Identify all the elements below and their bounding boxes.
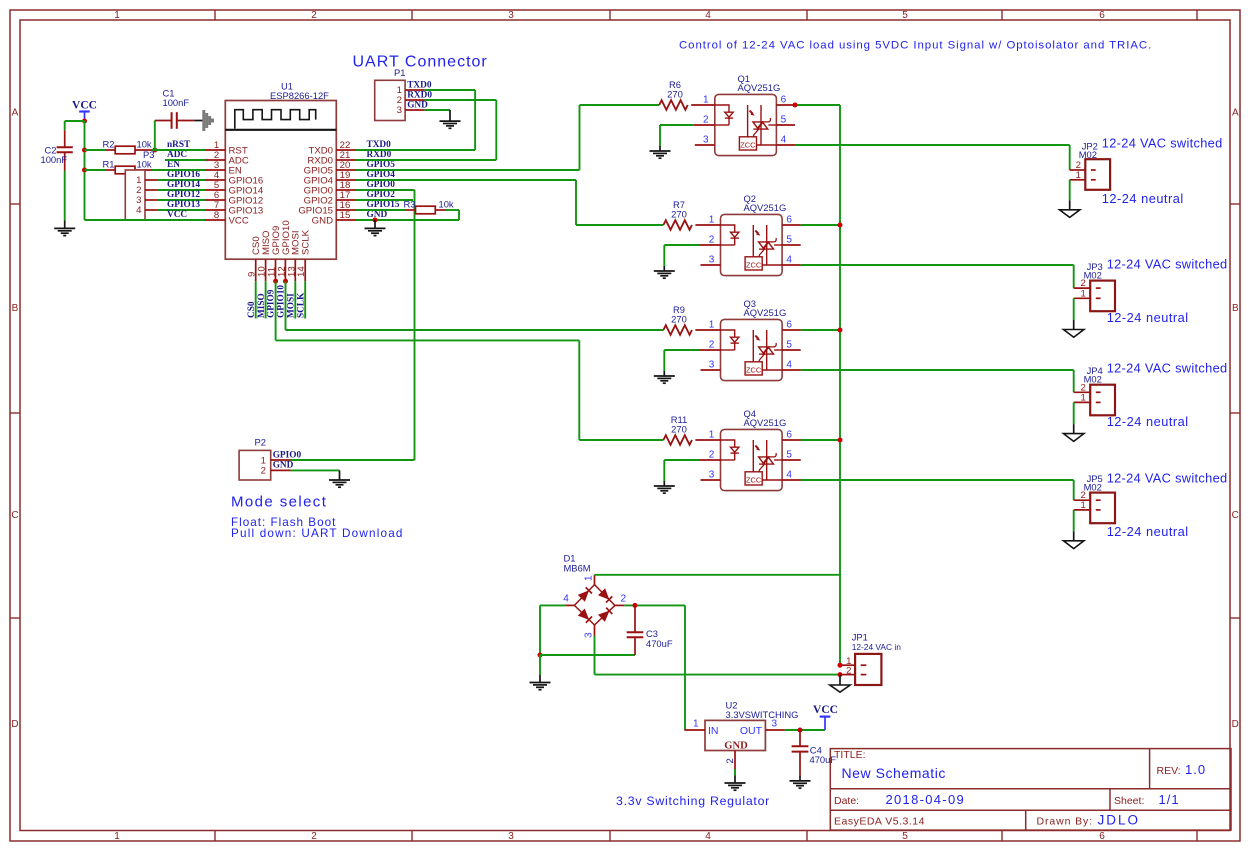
- svg-text:GPIO0: GPIO0: [273, 450, 302, 460]
- svg-text:4: 4: [781, 134, 787, 145]
- junction dot GND row: [373, 218, 378, 223]
- svg-text:4: 4: [786, 469, 792, 480]
- U1 antenna base line: [225, 129, 336, 131]
- regulator U2 3.3VSWITCHING body: [705, 720, 765, 750]
- svg-text:New Schematic: New Schematic: [842, 765, 946, 781]
- svg-text:4: 4: [705, 10, 711, 21]
- wire Q2 pin6 to bus: [801, 224, 840, 226]
- svg-text:EasyEDA V5.3.14: EasyEDA V5.3.14: [834, 816, 925, 828]
- frame column ticks bottom: [214, 831, 216, 842]
- wire D1 pin1 to AC bus: [595, 574, 841, 576]
- svg-text:C: C: [1232, 510, 1239, 521]
- svg-text:1/1: 1/1: [1159, 792, 1180, 807]
- wire P1 RXD0: [425, 99, 497, 101]
- wire GPIO15 to R3: [356, 209, 405, 211]
- Q1 pin 3 stub (open): [695, 144, 715, 146]
- connector P3 (4-pin header): [125, 170, 145, 220]
- svg-text:8: 8: [214, 210, 219, 221]
- svg-text:6: 6: [781, 94, 787, 105]
- U1 bottom pin stubs and names: [255, 259, 257, 281]
- resistor R7 270: [663, 220, 692, 230]
- svg-text:1: 1: [703, 94, 709, 105]
- svg-text:6: 6: [786, 319, 792, 330]
- Q4 photon arrow: [755, 446, 758, 449]
- Q2 pin 4 stub: [782, 264, 801, 266]
- svg-text:5: 5: [902, 831, 908, 842]
- svg-text:Mode select: Mode select: [231, 494, 327, 511]
- svg-text:14: 14: [296, 266, 307, 277]
- U1 right pin stubs and names: [336, 149, 356, 151]
- wire U2 pin2 to ground: [734, 769, 736, 776]
- junction dot Q4 pin6 bus: [838, 438, 843, 443]
- svg-text:CS0: CS0: [247, 301, 257, 318]
- svg-text:D: D: [11, 719, 18, 730]
- Q3 pin 6 stub: [782, 329, 801, 331]
- svg-text:JDLO: JDLO: [1098, 813, 1141, 828]
- ground below U1 GND pin: [374, 220, 376, 228]
- svg-text:4: 4: [563, 594, 569, 605]
- wire Q4 pin6 to bus: [801, 439, 840, 441]
- ground below P2: [329, 479, 350, 481]
- svg-text:270: 270: [671, 314, 687, 325]
- frame row ticks left: [10, 203, 20, 205]
- wire P1 GND to ground: [425, 109, 450, 111]
- ground below Q1: [650, 150, 671, 152]
- svg-text:2: 2: [261, 466, 266, 477]
- svg-text:Drawn By:: Drawn By:: [1037, 816, 1094, 828]
- svg-text:470uF: 470uF: [646, 638, 673, 649]
- Q2 pin 5 stub (open): [782, 244, 801, 246]
- svg-text:1: 1: [114, 10, 120, 21]
- wire GPIO4 to R7: [356, 179, 576, 181]
- wire RXD0 row: [356, 159, 496, 161]
- svg-text:4: 4: [136, 205, 142, 216]
- svg-text:10k: 10k: [137, 138, 152, 149]
- wire JP2 pin1 to ground: [1069, 180, 1071, 201]
- Q2 pin 3 stub (open): [701, 264, 721, 266]
- wire U2 OUT to VCC: [785, 729, 825, 731]
- connector JP5 M02 body: [1090, 493, 1115, 524]
- wire Q1 pin 2 to ground: [660, 124, 694, 126]
- wire Q4 pin4 to JP5: [801, 479, 1074, 481]
- connector JP4 M02 body: [1090, 385, 1115, 416]
- svg-text:12-24 neutral: 12-24 neutral: [1102, 191, 1184, 206]
- svg-text:M02: M02: [1084, 269, 1102, 280]
- svg-text:R3: R3: [404, 198, 416, 209]
- svg-text:ZCC: ZCC: [746, 365, 762, 374]
- wire GPIO9 to R11: [275, 281, 277, 340]
- svg-text:5: 5: [786, 234, 792, 245]
- wire GPIO2 (open): [356, 199, 413, 201]
- svg-text:5: 5: [786, 449, 792, 460]
- svg-text:4: 4: [786, 254, 792, 265]
- svg-text:270: 270: [671, 424, 687, 435]
- junction dot JP1 pin2: [838, 672, 843, 677]
- wire GPIO5 to R6: [356, 169, 580, 171]
- svg-text:P1: P1: [394, 67, 405, 78]
- Q3 ZCC block: [745, 362, 762, 375]
- power flag VCC (upper left): [79, 110, 90, 112]
- svg-text:VCC: VCC: [229, 215, 249, 226]
- svg-text:GPIO12: GPIO12: [167, 190, 200, 200]
- resistor R6 270: [659, 100, 688, 110]
- Q1 pin 4 stub: [776, 144, 795, 146]
- Q3 pin 3 stub (open): [701, 369, 721, 371]
- svg-text:GPIO13: GPIO13: [167, 200, 200, 210]
- svg-text:AQV251G: AQV251G: [744, 417, 787, 428]
- connector JP3 M02 body: [1090, 281, 1115, 312]
- Q1 internal triac: [747, 105, 749, 137]
- optoisolator Q3 AQV251G body: [721, 319, 783, 380]
- Q4 pin 5 stub (open): [782, 459, 801, 461]
- resistor R11 270: [663, 435, 692, 445]
- wire P2 pin2 to ground: [291, 469, 340, 471]
- svg-text:AQV251G: AQV251G: [744, 202, 787, 213]
- svg-text:2: 2: [311, 831, 317, 842]
- svg-text:Pull down: UART Download: Pull down: UART Download: [231, 527, 404, 540]
- svg-text:D: D: [1232, 719, 1239, 730]
- svg-text:EN: EN: [167, 160, 180, 170]
- ground below C4: [790, 780, 811, 782]
- D1 diode left-top: [579, 591, 589, 601]
- svg-text:GPIO2: GPIO2: [367, 190, 396, 200]
- svg-text:B: B: [12, 303, 19, 314]
- wire Q1 pin4 to JP2: [795, 144, 1070, 146]
- svg-text:ESP8266-12F: ESP8266-12F: [270, 90, 329, 101]
- svg-text:GND: GND: [724, 741, 748, 752]
- svg-text:4: 4: [786, 359, 792, 370]
- Q1 internal LED: [715, 105, 729, 112]
- svg-text:3: 3: [583, 632, 594, 638]
- svg-text:GND: GND: [273, 461, 294, 471]
- svg-text:100nF: 100nF: [163, 97, 190, 108]
- svg-text:M02: M02: [1084, 481, 1102, 492]
- U1 left pin stubs and names: [205, 149, 225, 151]
- svg-text:VCC: VCC: [813, 704, 838, 716]
- svg-text:12-24 neutral: 12-24 neutral: [1107, 414, 1189, 429]
- svg-text:GPIO5: GPIO5: [367, 160, 396, 170]
- svg-text:R2: R2: [103, 138, 115, 149]
- junction dot C3 tap: [633, 603, 638, 608]
- wire Q2 pin 2 to ground: [664, 244, 699, 246]
- svg-text:2018-04-09: 2018-04-09: [886, 792, 966, 807]
- wire R3 to GND row: [446, 209, 459, 211]
- Q1 ZCC block: [739, 137, 756, 150]
- Q1 pin 5 stub (open): [776, 124, 795, 126]
- wire ground rail to C3 bottom: [540, 654, 635, 656]
- svg-text:TXD0: TXD0: [367, 140, 392, 150]
- power flag VCC at U2 output: [820, 715, 831, 717]
- chassis ground below JP1: [830, 685, 850, 692]
- ground below Q2: [654, 270, 675, 272]
- Q4 internal LED: [721, 440, 735, 447]
- svg-text:R1: R1: [103, 158, 115, 169]
- wire VCC to C2 top: [65, 120, 85, 122]
- svg-text:12-24 VAC switched: 12-24 VAC switched: [1107, 471, 1228, 486]
- svg-text:3: 3: [508, 10, 514, 21]
- svg-text:GND: GND: [312, 215, 333, 226]
- svg-text:P2: P2: [255, 436, 266, 447]
- svg-text:GPIO14: GPIO14: [167, 180, 200, 190]
- svg-text:2: 2: [709, 449, 715, 460]
- D1 pin 4 lead: [566, 604, 574, 606]
- wire Q4 pin 2 to ground: [664, 459, 699, 461]
- wire D1 pin2 to U2: [624, 604, 685, 606]
- Q2 pin 6 stub: [782, 224, 801, 226]
- svg-text:2: 2: [311, 10, 317, 21]
- ground below Q4: [654, 485, 675, 487]
- junction dot Q1 pin6: [793, 103, 798, 108]
- Q3 photon arrow: [755, 336, 758, 339]
- frame row ticks right: [1230, 203, 1240, 205]
- svg-text:REV:: REV:: [1157, 765, 1181, 777]
- svg-text:ZCC: ZCC: [746, 260, 762, 269]
- ground below Q3: [654, 375, 675, 377]
- ground below C2: [64, 221, 66, 229]
- Q1 pin 6 stub: [776, 104, 795, 106]
- resistor R1 10k: [85, 169, 106, 171]
- U2 pin 2 stub: [734, 751, 736, 770]
- svg-text:1.0: 1.0: [1185, 762, 1206, 777]
- wire to D1 ground: [539, 655, 541, 675]
- svg-text:IN: IN: [708, 725, 719, 737]
- svg-text:12-24 VAC switched: 12-24 VAC switched: [1107, 256, 1228, 271]
- svg-text:UART Connector: UART Connector: [353, 54, 488, 71]
- connector P2 (2-pin header): [239, 450, 271, 480]
- wire VCC row to pin 8: [85, 219, 206, 221]
- wire D1 pin3 to JP1 pin2: [594, 636, 596, 675]
- Q2 pin 1 stub: [695, 224, 720, 226]
- svg-text:1: 1: [709, 429, 715, 440]
- resistor R9 270: [663, 325, 692, 335]
- D1 pin 1 lead: [594, 575, 596, 585]
- svg-text:B: B: [1232, 303, 1239, 314]
- wire Q3 pin6 to bus: [801, 329, 840, 331]
- svg-text:GPIO16: GPIO16: [167, 170, 200, 180]
- connector P1 (3-pin header): [375, 80, 405, 120]
- U1 antenna zigzag: [235, 110, 316, 129]
- svg-text:OUT: OUT: [740, 725, 763, 737]
- Q4 pin 2 stub: [700, 459, 721, 461]
- D1 pin 2 lead: [615, 604, 624, 606]
- svg-text:A: A: [1232, 108, 1239, 119]
- capacitor C1 100nF: [154, 121, 156, 151]
- optoisolator Q1 AQV251G body: [715, 94, 777, 155]
- svg-text:3: 3: [397, 105, 402, 116]
- svg-text:12-24 neutral: 12-24 neutral: [1107, 310, 1189, 325]
- Q3 internal LED: [721, 330, 735, 337]
- chassis ground below JP4: [1064, 434, 1084, 442]
- svg-text:3: 3: [703, 134, 709, 145]
- svg-text:M02: M02: [1079, 149, 1097, 160]
- svg-text:12-24 VAC switched: 12-24 VAC switched: [1107, 360, 1228, 375]
- svg-text:1: 1: [709, 214, 715, 225]
- svg-text:2: 2: [709, 234, 715, 245]
- ground below D1: [530, 682, 551, 684]
- Q4 pin 1 stub: [695, 439, 720, 441]
- Q4 pin 6 stub: [782, 439, 801, 441]
- svg-text:A: A: [12, 108, 19, 119]
- ground below P1: [440, 120, 461, 122]
- Q4 pin 4 stub: [782, 479, 801, 481]
- svg-text:Control of 12-24 VAC load usin: Control of 12-24 VAC load using 5VDC Inp…: [679, 40, 1152, 52]
- svg-text:ADC: ADC: [167, 150, 187, 160]
- chassis ground below JP3: [1064, 330, 1084, 338]
- svg-text:MOSI: MOSI: [287, 293, 297, 318]
- wire C2 to ground: [64, 171, 66, 221]
- svg-text:3: 3: [709, 254, 715, 265]
- svg-text:3: 3: [508, 831, 514, 842]
- svg-text:6: 6: [1099, 831, 1105, 842]
- Q2 internal triac: [752, 225, 754, 257]
- wire JP3 pin1 to ground: [1073, 298, 1075, 320]
- svg-text:3: 3: [772, 719, 778, 730]
- wire GPIO10 to R9: [285, 281, 287, 330]
- svg-text:TITLE:: TITLE:: [834, 749, 866, 761]
- svg-text:2: 2: [709, 339, 715, 350]
- svg-text:470uF: 470uF: [810, 754, 837, 765]
- resistor R3 10k: [405, 209, 416, 211]
- svg-text:GPIO0: GPIO0: [367, 180, 396, 190]
- D1 diode left-bottom: [579, 609, 589, 619]
- title block outline: [830, 749, 1231, 831]
- capacitor C2 100nF: [64, 121, 66, 130]
- svg-text:GPIO15: GPIO15: [367, 200, 400, 210]
- svg-text:3.3v Switching Regulator: 3.3v Switching Regulator: [616, 794, 770, 808]
- svg-text:ZCC: ZCC: [740, 140, 756, 149]
- Q3 internal triac: [752, 330, 754, 362]
- D1 pin 3 lead: [594, 625, 596, 636]
- svg-text:100nF: 100nF: [41, 154, 68, 165]
- Q4 internal triac: [752, 440, 754, 472]
- Q4 pin 3 stub (open): [701, 479, 721, 481]
- resistor R2 10k: [85, 149, 106, 151]
- wire EN: [152, 169, 205, 171]
- wire JP1 to chassis ground: [839, 675, 841, 685]
- svg-text:6: 6: [786, 429, 792, 440]
- gray signal-ground flag at C1: [194, 120, 204, 122]
- frame column ticks top: [214, 10, 216, 20]
- svg-text:MB6M: MB6M: [564, 562, 591, 573]
- Q2 internal LED: [721, 225, 735, 232]
- optoisolator Q4 AQV251G body: [721, 429, 783, 490]
- svg-text:VCC: VCC: [167, 210, 187, 220]
- junction dot nRST node: [152, 148, 157, 153]
- svg-text:4: 4: [705, 831, 711, 842]
- Q3 pin 2 stub: [700, 349, 721, 351]
- junction dot GPIO9 pin: [273, 279, 278, 284]
- svg-text:Sheet:: Sheet:: [1114, 795, 1144, 807]
- svg-text:1: 1: [709, 319, 715, 330]
- wire JP4 pin1 to ground: [1073, 402, 1075, 424]
- wire nRST: [152, 149, 205, 151]
- connector JP2 M02 body: [1085, 159, 1110, 190]
- wire JP5 pin1 to ground: [1073, 510, 1075, 531]
- svg-text:MISO: MISO: [257, 293, 267, 318]
- wire Q2 pin4 to JP3: [801, 264, 1074, 266]
- svg-text:AQV251G: AQV251G: [744, 307, 787, 318]
- capacitor C4 470uF: [799, 730, 801, 746]
- svg-text:VCC: VCC: [72, 100, 97, 112]
- svg-text:C: C: [11, 510, 18, 521]
- Q1 pin 2 stub: [694, 124, 715, 126]
- junction dot R2 row: [82, 148, 87, 153]
- junction dot R1 row: [82, 168, 87, 173]
- wire VCC rail vertical: [84, 121, 86, 220]
- Q1 photon arrow: [750, 111, 753, 114]
- svg-text:nRST: nRST: [167, 140, 191, 150]
- svg-text:2: 2: [621, 594, 627, 605]
- wire GPIO0 down to P2: [356, 189, 415, 191]
- Q2 pin 2 stub: [700, 244, 721, 246]
- svg-text:270: 270: [671, 209, 687, 220]
- svg-text:ZCC: ZCC: [746, 475, 762, 484]
- D1 diode top-right: [599, 589, 609, 599]
- svg-text:GPIO4: GPIO4: [367, 170, 396, 180]
- svg-text:5: 5: [786, 339, 792, 350]
- svg-text:6: 6: [1099, 10, 1105, 21]
- title block row dividers: [830, 788, 1231, 790]
- U2 pin 3 stub: [765, 729, 784, 731]
- ground below U2: [725, 782, 746, 784]
- D1 diode bottom-right: [599, 612, 609, 622]
- optoisolator Q2 AQV251G body: [721, 214, 783, 275]
- chassis ground below JP5: [1064, 541, 1084, 549]
- IC U1 ESP8266-12F body: [225, 101, 336, 260]
- svg-text:5: 5: [902, 10, 908, 21]
- junction dot ground rail: [538, 653, 543, 658]
- svg-text:SCLK: SCLK: [296, 292, 306, 318]
- junction dot VCC node: [82, 119, 87, 124]
- svg-text:2: 2: [725, 758, 736, 763]
- svg-text:10k: 10k: [439, 198, 454, 209]
- Q1 pin 1 stub: [691, 104, 715, 106]
- svg-text:6: 6: [786, 214, 792, 225]
- svg-text:3: 3: [709, 359, 715, 370]
- U2 pin 1 stub: [684, 729, 705, 731]
- svg-text:3.3VSWITCHING: 3.3VSWITCHING: [726, 709, 799, 720]
- wire Q3 pin4 to JP4: [801, 369, 1074, 371]
- junction dot GPIO10 pin: [283, 279, 288, 284]
- svg-text:2: 2: [703, 114, 709, 125]
- Q3 pin 4 stub: [782, 369, 801, 371]
- svg-text:AQV251G: AQV251G: [738, 82, 781, 93]
- svg-text:15: 15: [340, 210, 351, 221]
- wire ADC: [165, 159, 205, 161]
- AC bus vertical wire: [839, 105, 841, 665]
- svg-text:270: 270: [667, 89, 683, 100]
- wire D1 pin4 to ground rail: [540, 604, 566, 606]
- svg-text:5: 5: [781, 114, 787, 125]
- svg-text:1: 1: [114, 831, 120, 842]
- Q3 pin 1 stub: [695, 329, 720, 331]
- svg-text:SCLK: SCLK: [301, 229, 312, 255]
- svg-text:Date:: Date:: [834, 795, 859, 807]
- wire Q1 pin6 to bus: [795, 104, 840, 106]
- svg-text:M02: M02: [1084, 373, 1102, 384]
- svg-text:3: 3: [709, 469, 715, 480]
- wire Q3 pin 2 to ground: [664, 349, 699, 351]
- title block cell dividers: [1149, 749, 1151, 789]
- wires at U1 bottom pins: [255, 281, 257, 318]
- svg-text:JP1: JP1: [852, 631, 868, 642]
- svg-text:1: 1: [693, 719, 699, 730]
- svg-text:RXD0: RXD0: [367, 150, 392, 160]
- junction dot Q2 pin6 bus: [838, 223, 843, 228]
- svg-text:1: 1: [584, 575, 595, 581]
- Q3 pin 5 stub (open): [782, 349, 801, 351]
- svg-text:12-24 neutral: 12-24 neutral: [1107, 524, 1189, 539]
